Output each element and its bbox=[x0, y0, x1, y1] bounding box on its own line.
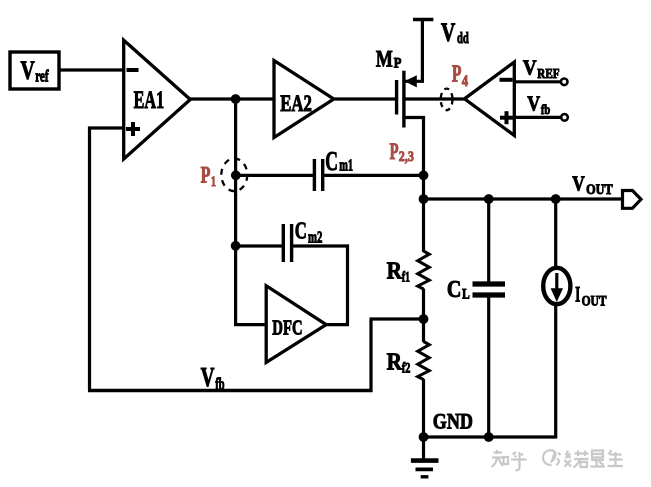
capacitor CL bbox=[473, 284, 506, 295]
svg-text:EA1: EA1 bbox=[134, 85, 165, 114]
junction Cm2 tap on P1 column bbox=[231, 241, 241, 251]
wire Mp body to bulk-drive amp output bbox=[405, 97, 465, 100]
svg-text:OUT: OUT bbox=[586, 182, 613, 198]
svg-text:C: C bbox=[447, 277, 462, 303]
svg-text:P: P bbox=[390, 139, 399, 164]
junction CL top node bbox=[484, 194, 494, 204]
svg-text:R: R bbox=[387, 258, 403, 285]
wire Rf2 bottom lead bbox=[422, 379, 425, 437]
wire DFC input bbox=[234, 323, 267, 326]
junction GND CL node bbox=[484, 432, 494, 442]
transistor Mp gate plate bbox=[395, 80, 398, 115]
svg-text:V: V bbox=[527, 91, 540, 115]
label CL bbox=[447, 277, 470, 303]
wire VOUT rail bbox=[424, 197, 624, 200]
current source IOUT circle bbox=[543, 268, 570, 304]
capacitor Cm1 bbox=[314, 159, 322, 191]
wire Vfb riser to resistor tap bbox=[369, 319, 372, 392]
svg-text:fb: fb bbox=[215, 375, 224, 394]
svg-text:4: 4 bbox=[462, 73, 469, 90]
label Vfb bottom bbox=[201, 362, 225, 393]
label Rf1 bbox=[387, 258, 410, 286]
terminal Vfb bbox=[561, 114, 568, 121]
node P1 dashed circle bbox=[221, 159, 247, 192]
svg-text:P: P bbox=[201, 163, 211, 189]
svg-text:I: I bbox=[575, 282, 580, 307]
output port arrow VOUT bbox=[623, 191, 642, 209]
label Cm1 bbox=[325, 146, 353, 176]
ground symbol bbox=[411, 461, 439, 477]
wire Cm2 right plate across bbox=[293, 244, 348, 247]
junction GND left node bbox=[419, 432, 429, 442]
wire IOUT top lead bbox=[554, 199, 557, 269]
svg-text:f1: f1 bbox=[402, 270, 410, 286]
node P4 dashed ellipse bbox=[441, 89, 453, 111]
svg-text:f2: f2 bbox=[402, 361, 411, 377]
capacitor Cm2 bbox=[283, 224, 291, 262]
wire Vfb input bbox=[514, 116, 561, 119]
watermark zhihu bbox=[492, 450, 624, 471]
current source IOUT arrow bbox=[551, 273, 563, 302]
svg-text:M: M bbox=[376, 47, 393, 73]
svg-text:EA2: EA2 bbox=[280, 91, 312, 116]
bulk-drive amp minus sign bbox=[500, 78, 513, 82]
label P2,3 bbox=[390, 139, 414, 165]
svg-text:ref: ref bbox=[35, 67, 49, 86]
svg-text:C: C bbox=[325, 146, 338, 176]
label P1 bbox=[201, 163, 216, 191]
junction node P1 bbox=[231, 170, 241, 180]
label Vfb right bbox=[527, 91, 550, 118]
svg-text:V: V bbox=[523, 55, 537, 79]
label Vref bbox=[21, 56, 49, 85]
terminal VREF bbox=[561, 79, 568, 86]
junction IOUT top node bbox=[551, 194, 561, 204]
op-amp bulk-drive (left-pointing) bbox=[465, 62, 515, 136]
junction EA1 output node bbox=[231, 94, 241, 104]
svg-text:V: V bbox=[21, 56, 35, 85]
wire DFC output bbox=[326, 323, 349, 326]
svg-text:V: V bbox=[201, 362, 215, 392]
wire EA1 output to EA2 input bbox=[190, 97, 275, 100]
junction VOUT rail left node bbox=[419, 194, 429, 204]
wire Mp source lead bbox=[405, 20, 422, 82]
voltage source Vref box bbox=[10, 52, 59, 89]
wire Mp drain lead bbox=[405, 118, 424, 201]
svg-text:m2: m2 bbox=[308, 227, 322, 246]
wire GND rail bbox=[424, 435, 556, 438]
junction node P2,3 bbox=[419, 170, 429, 180]
svg-text:R: R bbox=[387, 349, 403, 376]
bulk-drive amp plus sign bbox=[500, 111, 513, 124]
svg-text:REF: REF bbox=[537, 67, 559, 82]
wire ground stub bbox=[422, 437, 425, 459]
amplifier DFC bbox=[266, 286, 326, 363]
wire left feedback riser (Vfb) bbox=[88, 127, 91, 391]
wire IOUT bottom lead bbox=[554, 304, 557, 439]
svg-text:L: L bbox=[462, 287, 470, 303]
wire EA2 output to Mp gate bbox=[334, 97, 395, 100]
svg-text:GND: GND bbox=[433, 409, 473, 434]
wire Cm2 right drop to DFC output bbox=[346, 244, 349, 324]
label VOUT bbox=[572, 172, 613, 199]
junction feedback tap node bbox=[419, 314, 429, 324]
svg-text:V: V bbox=[441, 18, 455, 47]
wire Rf1 to tap bbox=[422, 289, 425, 343]
wire Cm1 right plate to node P2,3 bbox=[324, 174, 425, 177]
label P4 bbox=[452, 61, 468, 90]
label VREF bbox=[523, 55, 560, 82]
op-amp EA1 bbox=[124, 40, 191, 159]
wire node P1 column down to DFC input bbox=[234, 99, 237, 325]
label Mp bbox=[376, 47, 401, 73]
svg-text:P: P bbox=[394, 56, 402, 72]
op-amp EA2 bbox=[274, 61, 334, 138]
wire Cm2 tap to Cm2 left plate bbox=[236, 244, 282, 247]
label Cm2 bbox=[295, 218, 323, 247]
label Vdd bbox=[441, 18, 469, 47]
svg-text:C: C bbox=[295, 218, 307, 245]
svg-text:V: V bbox=[572, 172, 585, 196]
resistor Rf1 bbox=[418, 251, 430, 289]
EA1 non-inverting pin plus sign bbox=[126, 122, 140, 136]
wire CL bottom lead bbox=[487, 296, 490, 437]
svg-text:DFC: DFC bbox=[272, 316, 302, 340]
transistor Mp source arrow bbox=[405, 75, 417, 87]
wire Rf column top lead bbox=[422, 199, 425, 252]
svg-text:fb: fb bbox=[541, 103, 550, 118]
wire Vref output to EA1 inverting input bbox=[59, 68, 124, 71]
wire VREF input bbox=[514, 80, 561, 83]
label Rf2 bbox=[387, 349, 411, 377]
wire P1 to Cm1 left plate bbox=[236, 174, 313, 177]
power Vdd bar bbox=[413, 18, 433, 21]
svg-text:OUT: OUT bbox=[582, 294, 607, 310]
svg-text:2,3: 2,3 bbox=[399, 149, 414, 165]
svg-text:dd: dd bbox=[457, 30, 469, 47]
transistor Mp channel bar bbox=[402, 71, 405, 128]
EA1 inverting pin minus sign bbox=[127, 68, 139, 72]
wire EA1 non-inverting input to left feedback riser bbox=[88, 126, 125, 129]
label IOUT bbox=[575, 282, 607, 310]
svg-text:P: P bbox=[452, 61, 462, 88]
resistor Rf2 bbox=[418, 342, 430, 380]
svg-text:m1: m1 bbox=[339, 156, 353, 175]
wire bottom Vfb rail bbox=[88, 389, 373, 392]
wire CL top lead bbox=[487, 199, 490, 284]
wire riser top to Rf1/Rf2 junction bbox=[370, 317, 425, 320]
svg-text:1: 1 bbox=[211, 174, 216, 190]
